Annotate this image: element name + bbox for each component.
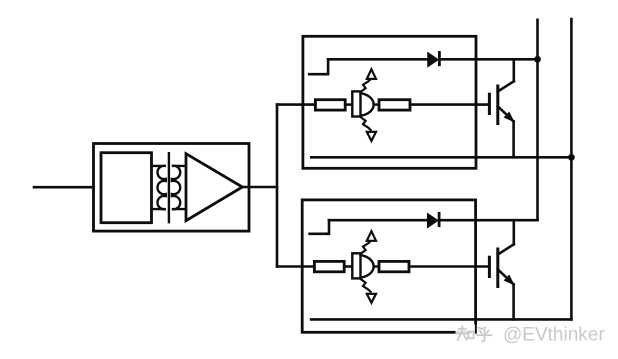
bottom driver box [302, 200, 475, 332]
IGBT Q4 bottom [489, 220, 513, 319]
wire R2 to IGBT gate [410, 103, 488, 106]
wire amp output [242, 186, 277, 189]
wire splitter vertical [276, 105, 279, 267]
wire top diode cathode to bus [439, 58, 537, 61]
bus phase output [570, 19, 573, 319]
push-pull buffer Q1 [352, 69, 379, 141]
wire to top driver input [277, 103, 315, 106]
wire bottom diode cathode to bus [439, 219, 537, 222]
bottom box enable step wire [310, 220, 329, 234]
oscillator block [101, 153, 152, 223]
diode D2 [428, 214, 438, 227]
diode D1 cathode bar [438, 52, 441, 64]
junction dot node P [534, 56, 541, 63]
junction dot node M [568, 154, 575, 161]
wire top box bottom rail [311, 156, 571, 159]
wire to bottom driver input [277, 265, 314, 268]
resistor R2 [379, 100, 410, 110]
wire R3 to buffer [344, 265, 352, 268]
svg-text:@EVthinker: @EVthinker [503, 324, 605, 345]
watermark zhihu [456, 325, 494, 342]
IGBT Q3 top [489, 59, 513, 157]
transformer T1 core [168, 153, 170, 222]
wire input left [34, 186, 94, 189]
diode D2 cathode bar [438, 213, 441, 225]
wire R1 to buffer [345, 103, 352, 106]
top box enable step wire [309, 59, 328, 74]
diode D1 [428, 53, 438, 66]
wire bottom diode anode [329, 219, 428, 222]
bus DC positive [536, 20, 539, 220]
wire R4 to IGBT gate [409, 265, 487, 268]
wire top diode anode [328, 58, 428, 61]
resistor R4 [379, 261, 409, 271]
transformer T1 secondary winding [172, 166, 186, 210]
amplifier A1 [186, 154, 242, 221]
resistor R1 [315, 100, 345, 110]
wire bottom box bottom rail [311, 318, 571, 321]
top driver box [303, 36, 476, 168]
transformer T1 primary winding [151, 166, 165, 210]
resistor R3 [314, 261, 344, 271]
gate drive unit box U1 [94, 144, 250, 232]
push-pull buffer Q2 [352, 231, 379, 303]
